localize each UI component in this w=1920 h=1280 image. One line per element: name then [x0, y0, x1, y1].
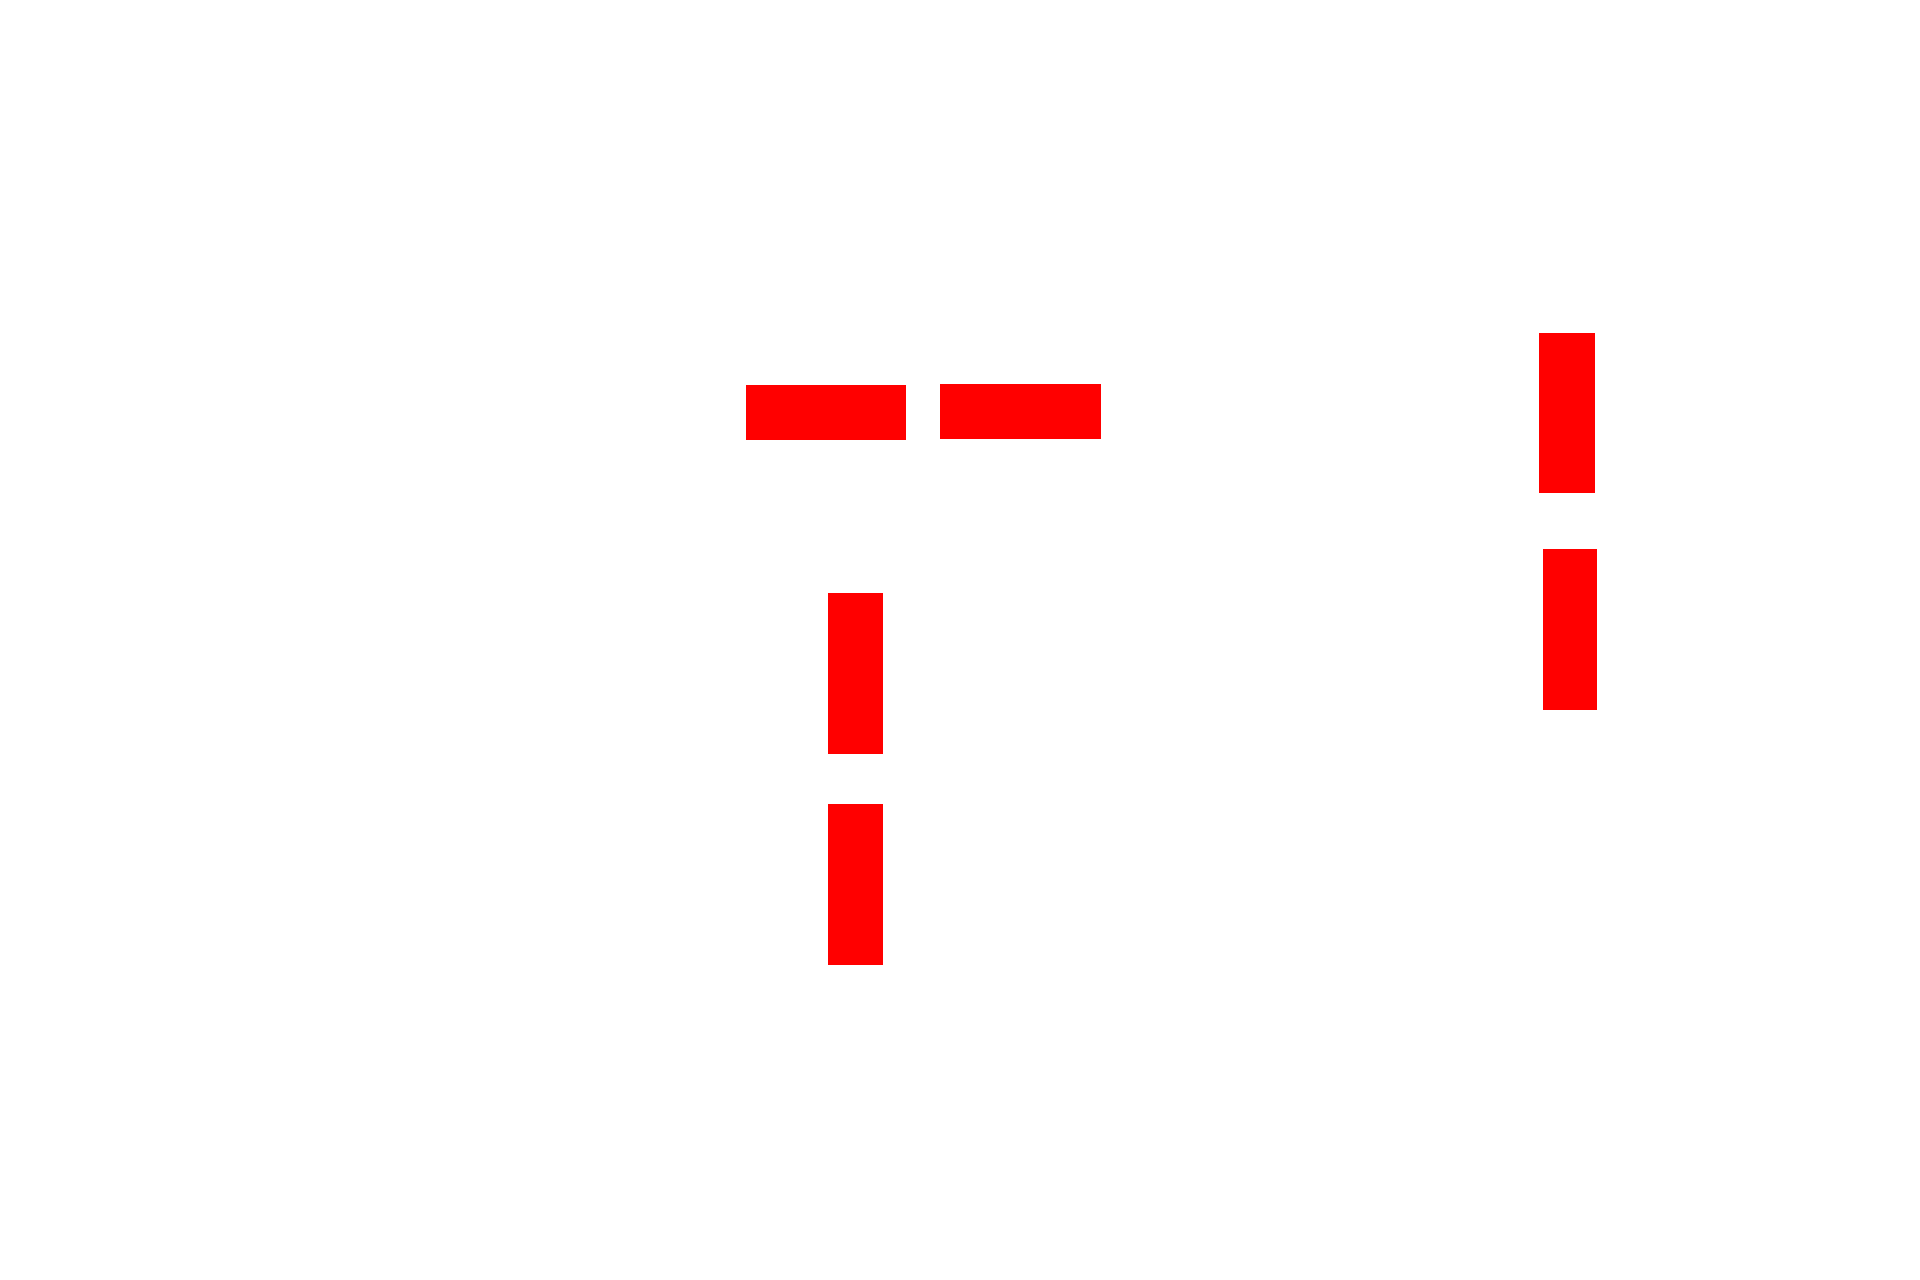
vertical red bar 5 (right upper stick) — [1539, 333, 1595, 493]
horizontal red bar 2 (top-right stick) — [940, 384, 1101, 439]
vertical red bar 6 (right lower stick) — [1543, 549, 1597, 710]
vertical red bar 3 (middle-left upper stick) — [828, 593, 883, 754]
horizontal red bar 1 (top-left stick) — [746, 385, 906, 440]
vertical red bar 4 (middle-left lower stick) — [828, 804, 883, 965]
